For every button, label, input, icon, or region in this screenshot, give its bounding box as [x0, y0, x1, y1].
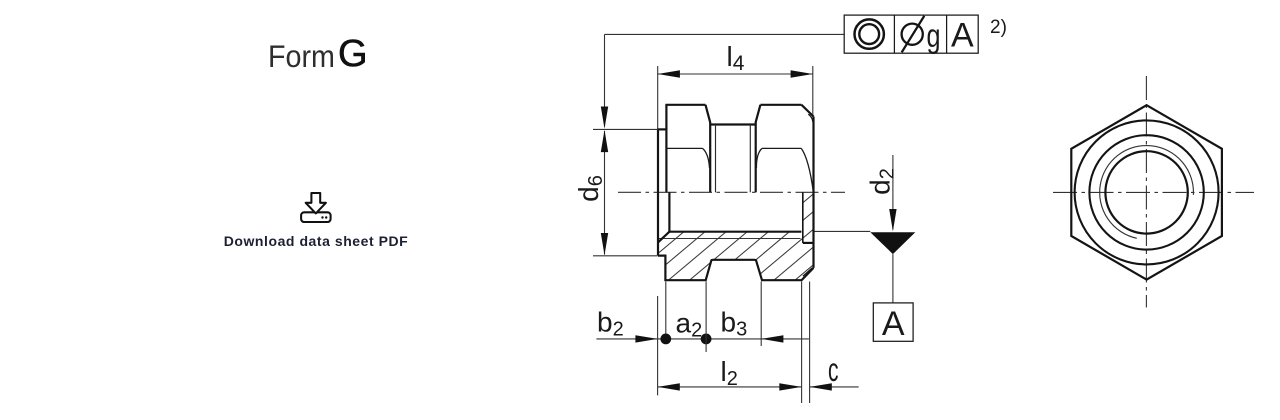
datum triangle A	[870, 232, 915, 254]
groove root edge	[711, 123, 755, 125]
chamfer arc block 1 right	[703, 148, 710, 168]
bore end shoulder	[668, 192, 670, 231]
title Form G	[267, 0, 269, 70]
leader line to tolerance frame	[605, 34, 845, 126]
svg-text:2): 2)	[990, 17, 1007, 38]
hex block 2 top edge	[760, 104, 801, 106]
svg-text:c: c	[828, 351, 839, 388]
hex edge line block 1	[666, 147, 702, 149]
svg-text:A: A	[882, 305, 905, 343]
end view centerlines	[1053, 76, 1254, 308]
dimension line b2 a2 b3	[596, 338, 809, 340]
closed end wall bottom edge	[803, 242, 814, 244]
face arc right end	[801, 148, 813, 191]
b2 arrow	[635, 335, 657, 342]
end view hexagon	[1071, 105, 1222, 279]
thread circle thin arc	[1100, 146, 1194, 239]
dimension l4	[658, 66, 813, 129]
datum box A	[873, 303, 913, 341]
b3 arrow	[761, 335, 783, 342]
thread major diameter thin line	[658, 238, 800, 240]
corner arc right top	[808, 114, 813, 122]
svg-text:g: g	[927, 17, 941, 54]
end face circle	[1089, 135, 1203, 249]
part outline upper half	[657, 105, 814, 268]
right end face	[812, 117, 814, 268]
centerline side view	[618, 191, 845, 193]
dimension d2	[815, 155, 893, 231]
hex left edge	[665, 105, 667, 193]
dimension l2	[658, 386, 802, 388]
svg-text:A: A	[951, 16, 974, 54]
inner chamfer line bottom right	[803, 268, 812, 276]
svg-text:l2: l2	[721, 356, 738, 390]
groove right wall slant	[756, 105, 761, 123]
groove left silhouette	[709, 123, 711, 193]
chamfer arc block 2 left	[756, 148, 762, 168]
right end chamfer slant	[802, 105, 814, 117]
download label	[160, 233, 472, 249]
dimension d6	[593, 129, 658, 255]
concentricity symbol	[855, 19, 884, 48]
tolerance frame	[844, 15, 978, 53]
datum dot a2 left	[660, 334, 671, 345]
closed end wall left edge	[802, 192, 804, 243]
download icon	[300, 192, 332, 223]
section outline lower half	[658, 192, 814, 280]
svg-text:a2: a2	[676, 308, 703, 342]
leader arrow	[601, 107, 608, 129]
section hatching	[566, 179, 957, 330]
svg-text:d2: d2	[865, 168, 899, 195]
svg-text:d6: d6	[573, 175, 607, 202]
thin groove inner verticals	[716, 125, 751, 193]
extension lines bottom	[658, 282, 810, 404]
groove left wall slant	[706, 105, 711, 123]
chamfer circle	[1075, 120, 1219, 264]
hex block 1 top edge	[665, 104, 705, 106]
bore thread line	[669, 231, 801, 233]
svg-text:b2: b2	[597, 307, 624, 341]
collar step and flange bottom profile	[658, 256, 814, 281]
groove right silhouette	[755, 123, 757, 193]
left end face	[657, 129, 659, 255]
bore circle	[1105, 151, 1187, 233]
diameter symbol and g	[902, 16, 925, 53]
download data sheet block	[160, 192, 472, 249]
dimension c	[810, 386, 859, 388]
svg-text:l4: l4	[727, 41, 745, 75]
datum dot a2 right	[701, 334, 712, 345]
collar top edge	[657, 128, 666, 130]
hex edge lines and chamfer arcs	[666, 114, 813, 276]
counterbore chamfer slant	[658, 232, 669, 243]
hex edge line block 2	[762, 147, 801, 149]
svg-text:b3: b3	[721, 307, 748, 341]
